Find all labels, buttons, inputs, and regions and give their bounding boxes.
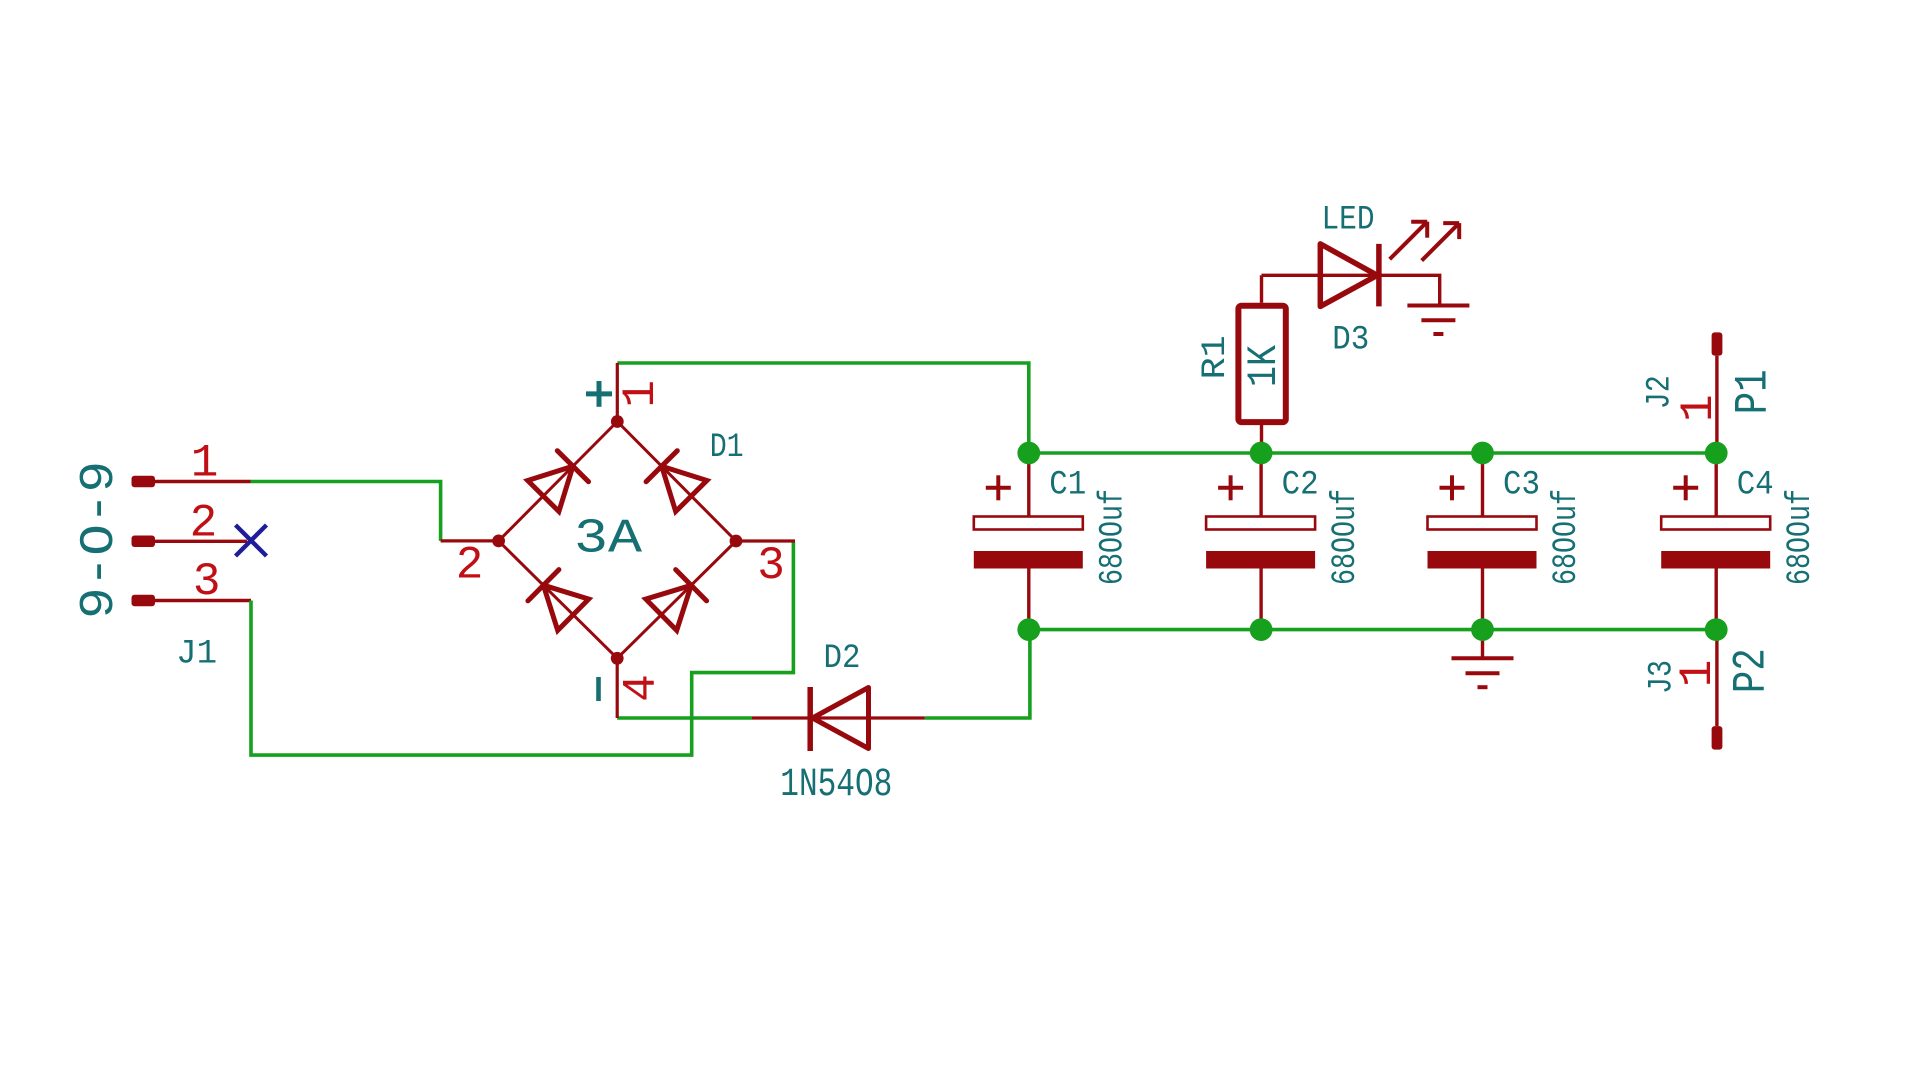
svg-text:D3: D3 (1332, 322, 1369, 360)
LED D3 arrow 2 (1422, 223, 1460, 261)
connector P1 (J2) stub (1712, 332, 1723, 355)
svg-text:P1: P1 (1728, 369, 1780, 414)
wire J1 pin3 to bridge node 3 (251, 542, 793, 755)
bridge node 2 dot (492, 535, 505, 548)
bridge pin name plus (586, 381, 612, 407)
svg-text:4: 4 (615, 674, 667, 702)
svg-text:1N54O8: 1N54O8 (780, 763, 892, 808)
bridge rectifier D1 arms (499, 422, 736, 659)
svg-text:3: 3 (757, 540, 785, 592)
connector J1 pin 2 stub (132, 536, 248, 548)
bridge diode lower-left (528, 570, 589, 631)
svg-text:1: 1 (191, 437, 219, 489)
svg-text:C1: C1 (1049, 467, 1086, 505)
capacitor C4 (1661, 453, 1770, 630)
diode D2 triangle (813, 688, 869, 749)
bridge pin 2 stub (441, 539, 499, 542)
ground under C3 (1452, 630, 1514, 688)
junction dot C3 top (1471, 442, 1494, 465)
ground under LED (1407, 306, 1469, 335)
svg-text:9-O-9: 9-O-9 (73, 461, 127, 619)
bridge node 4 dot (611, 652, 624, 665)
bridge pin name minus (596, 677, 601, 701)
capacitor C1 (974, 453, 1083, 630)
wire bridge pin1 to C1 top junction (617, 363, 1029, 453)
resistor R1 (1238, 306, 1285, 422)
bridge pin 4 stub (616, 658, 619, 718)
junction dot P2 (1705, 618, 1728, 641)
diode D2 lead right (869, 716, 925, 719)
junction dot C1 bottom (1017, 618, 1040, 641)
LED D3 arrow 1 (1390, 222, 1428, 260)
diode D2 lead left (752, 716, 870, 719)
svg-text:D1: D1 (710, 429, 744, 467)
LED D3 cathode wire (1379, 275, 1440, 303)
svg-text:1: 1 (1673, 394, 1725, 422)
connector J1 pin 1 stub (132, 476, 251, 488)
svg-text:2: 2 (456, 540, 484, 592)
capacitor C2 (1206, 453, 1315, 630)
bridge node 3 dot (730, 535, 743, 548)
junction dot C2 bottom (1250, 618, 1273, 641)
bridge pin 3 stub (736, 539, 795, 542)
LED D3 triangle (1320, 244, 1377, 307)
svg-text:R1: R1 (1197, 335, 1235, 379)
svg-text:C4: C4 (1737, 467, 1774, 505)
bridge diode upper-right (646, 451, 707, 512)
svg-text:C2: C2 (1282, 467, 1319, 505)
resistor R1 bottom lead (1260, 422, 1263, 453)
svg-text:3A: 3A (574, 513, 642, 567)
bridge diode upper-left (528, 451, 589, 512)
svg-text:P2: P2 (1725, 648, 1777, 693)
svg-text:D2: D2 (824, 640, 861, 678)
resistor R1 top lead (1260, 275, 1263, 303)
svg-text:68OOuf: 68OOuf (1548, 489, 1586, 585)
bridge pin 1 stub (616, 363, 619, 422)
svg-text:1: 1 (615, 380, 667, 408)
svg-text:C3: C3 (1503, 467, 1540, 505)
svg-text:J1: J1 (176, 636, 217, 674)
svg-text:LED: LED (1322, 202, 1375, 240)
wire bottom bus (1029, 628, 1716, 632)
connector P2 (J3) stub (1712, 726, 1723, 750)
wire D2 to C1 bottom junction (925, 630, 1030, 718)
svg-text:1: 1 (1672, 660, 1724, 688)
wire top bus (1029, 451, 1716, 455)
junction dot C1 top (1017, 442, 1040, 465)
svg-text:68OOuf: 68OOuf (1327, 489, 1365, 585)
connector J1 pin 3 stub (132, 595, 252, 607)
svg-text:68OOuf: 68OOuf (1782, 489, 1820, 585)
capacitor C3 (1428, 453, 1537, 630)
junction dot C2 top (1250, 442, 1273, 465)
wire J1 pin1 to bridge node 2 (251, 482, 441, 541)
svg-text:2: 2 (190, 497, 218, 549)
no-connect X on J1 pin 2 (236, 525, 267, 556)
svg-text:68OOuf: 68OOuf (1095, 489, 1133, 585)
wire bridge pin4 to D2 (617, 716, 752, 720)
LED D3 cathode bar (1376, 244, 1382, 307)
junction dot C3 bottom (1471, 618, 1494, 641)
svg-text:1K: 1K (1240, 344, 1288, 387)
connector P2 pin wire (1715, 630, 1718, 727)
bridge node 1 dot (611, 415, 624, 428)
diode D2 cathode bar (807, 687, 813, 751)
connector P1 pin wire (1715, 356, 1718, 453)
LED D3 anode wire (1262, 274, 1378, 277)
svg-text:3: 3 (193, 556, 221, 608)
junction dot P1 (1705, 442, 1728, 465)
bridge diode lower-right (646, 570, 707, 631)
